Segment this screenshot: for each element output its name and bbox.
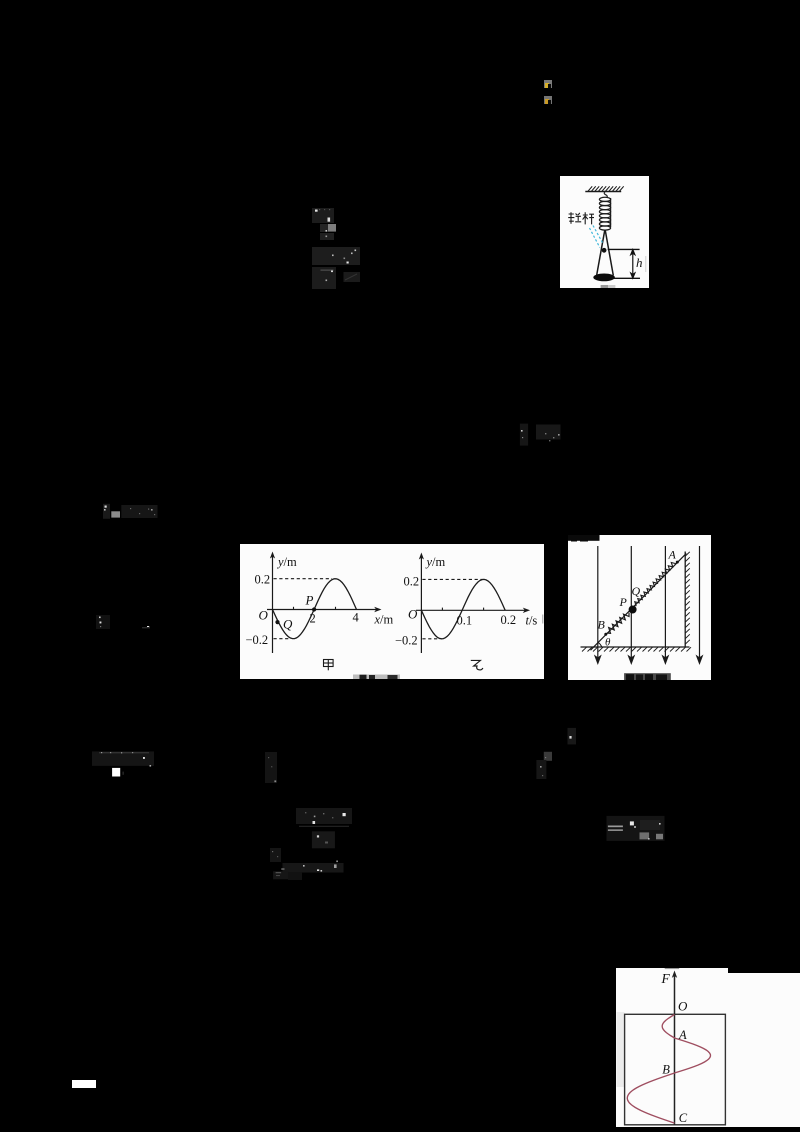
icon badge 1 [544, 80, 552, 89]
point B [604, 633, 607, 636]
svg-text:A: A [678, 1027, 687, 1041]
jia ticks [293, 607, 335, 610]
light rod right [605, 229, 613, 274]
spring coils [599, 197, 610, 230]
figure: wave graphs jia/yi (question 8) [240, 544, 545, 680]
field line arrow 1 [595, 546, 600, 663]
faint dots near wave fig left (x~96-152, y~615-629) [94, 613, 156, 631]
faint remnant cluster I with = sign (x~606-665, y~816-841) [603, 812, 669, 845]
svg-text:−0.2: −0.2 [394, 633, 417, 647]
svg-text:B: B [598, 618, 606, 632]
field line arrow 2 [629, 546, 634, 663]
ball on rod [602, 247, 607, 252]
jia caption CJK [323, 659, 333, 670]
svg-text:P: P [304, 592, 313, 607]
jia axis arrows [269, 551, 274, 558]
svg-text:4: 4 [352, 610, 359, 624]
svg-text:0.2: 0.2 [254, 572, 270, 586]
faint remnant cluster E with white square (x~92-155, y~751-777) [88, 748, 158, 781]
light rod left [597, 229, 605, 274]
figure: incline spring in field (question 9/10) [568, 535, 711, 680]
faint remnant cluster A (x~312-360, y~208-289) [300, 200, 390, 300]
dashed cyan pointer 1 [593, 225, 603, 243]
svg-text:P: P [619, 595, 628, 609]
svg-text:−0.2: −0.2 [245, 633, 268, 647]
faint remnant cluster J rows (x~270-352, y~807-880) [268, 804, 358, 884]
field line arrow 3 [663, 546, 668, 663]
dashed cyan pointer 2 [589, 227, 599, 246]
faint remnant cluster B (x~520-561, y~424-446) [515, 420, 567, 450]
svg-text:A: A [667, 548, 676, 562]
grey strip [645, 255, 646, 271]
field line arrow 4 [697, 546, 702, 663]
svg-text:O: O [407, 606, 417, 621]
icon badge 2 [544, 96, 552, 104]
jia y-axis [266, 556, 376, 653]
jia point P [311, 607, 315, 611]
svg-text:h: h [636, 254, 643, 269]
angle arc [598, 643, 601, 647]
jia point Q [275, 620, 279, 624]
svg-text:B: B [662, 1062, 670, 1076]
jia dashed -0.2 [273, 638, 288, 640]
red curve [627, 1014, 710, 1123]
svg-text:0.1: 0.1 [456, 613, 472, 627]
point A [676, 561, 679, 564]
yi y-axis [415, 557, 525, 653]
yi axis arrows [418, 552, 423, 559]
svg-text:x/m: x/m [373, 612, 393, 626]
svg-text:Q: Q [282, 616, 292, 631]
faint remnant cluster G (x~567-576, y~728-744) [564, 725, 580, 748]
svg-text:F: F [660, 971, 670, 986]
yi dashed 0.2 [422, 578, 486, 580]
F axis [673, 974, 675, 1124]
yi sine curve [421, 579, 505, 638]
svg-text:Q: Q [632, 584, 641, 598]
white notch strip top [616, 968, 728, 974]
axis arrow [672, 970, 677, 977]
ground hatch [582, 647, 691, 651]
svg-text:y/m: y/m [424, 555, 445, 569]
spring P-A (coil triangles) [635, 563, 676, 607]
faint remnant cluster H (x~536-553, y~752-779) [533, 748, 557, 783]
svg-text:C: C [679, 1110, 688, 1124]
jia sine curve [272, 579, 356, 639]
grey strip left of rect [616, 1012, 624, 1087]
ball P [629, 606, 637, 614]
caption blob (fig 8 caption remnant) [352, 674, 399, 679]
wall hatch [685, 552, 689, 644]
caption remnant bottom [624, 673, 671, 680]
spring hook [604, 191, 607, 197]
yi dashed -0.2 [422, 638, 440, 640]
ceiling line [585, 186, 623, 191]
outer rectangle [624, 1014, 725, 1124]
jia dashed 0.2 [273, 578, 331, 580]
grey top cut line [664, 968, 678, 969]
ring (ellipse) [593, 273, 615, 281]
ground line [581, 646, 690, 648]
svg-text:θ: θ [605, 637, 611, 649]
yi caption CJK [470, 660, 482, 669]
h double arrow [631, 249, 635, 277]
caption remnant top-left [568, 535, 599, 541]
svg-text:O: O [258, 607, 268, 622]
yi ticks [442, 607, 483, 610]
ceiling hatch [588, 186, 624, 191]
h marker top line [608, 248, 640, 250]
white rect bottom-left [72, 1080, 96, 1088]
faint remnant cluster F (x~265-280, y~752-783) [262, 749, 282, 785]
svg-text:0.2: 0.2 [500, 613, 516, 627]
incline line [591, 554, 687, 651]
figure: F force-displacement curve (bottom right) [616, 973, 800, 1128]
spring B-P (compressed zigzag) [607, 613, 629, 633]
label 轻杆 (hand strokes) [568, 212, 594, 224]
grey cut tick [541, 614, 542, 623]
svg-text:0.2: 0.2 [403, 574, 419, 588]
svg-text:2: 2 [309, 611, 315, 625]
figure: spring-cone (question 7) [560, 176, 649, 289]
grey smudge [600, 284, 615, 287]
svg-text:t/s: t/s [525, 613, 537, 627]
svg-text:y/m: y/m [275, 555, 296, 569]
white square [112, 768, 120, 777]
h marker bottom line [614, 277, 640, 279]
wall line [684, 552, 686, 647]
faint remnant cluster C (x~103-158, y~504-519) [98, 500, 163, 524]
svg-text:O: O [678, 998, 688, 1013]
